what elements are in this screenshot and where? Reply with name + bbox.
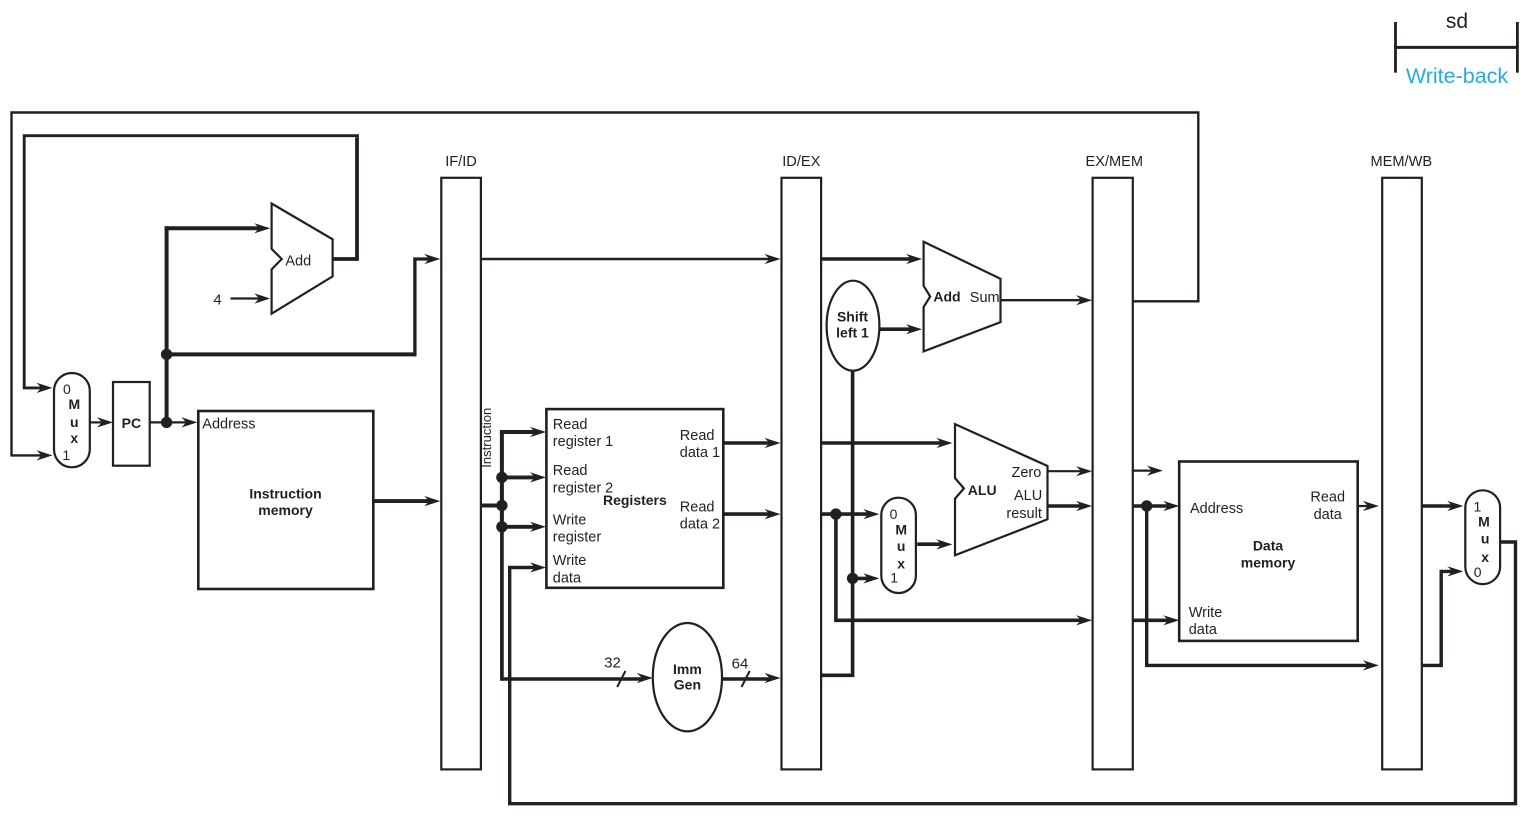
svg-text:Add: Add bbox=[285, 253, 311, 269]
wire: ALU result to EX/MEM bbox=[1048, 504, 1084, 507]
svg-text:Read: Read bbox=[680, 428, 715, 444]
svg-text:Write: Write bbox=[1189, 605, 1223, 621]
svg-text:x: x bbox=[1481, 549, 1489, 565]
svg-text:Read: Read bbox=[553, 417, 588, 433]
wire: instruction to Read register 2 bbox=[502, 475, 537, 479]
wire: store data from EX/MEM to data memory bbox=[1133, 618, 1171, 622]
svg-text:register: register bbox=[553, 529, 602, 545]
adder U1 (PC+4 adder) bbox=[272, 204, 333, 314]
svg-text:data 1: data 1 bbox=[680, 445, 720, 461]
svg-text:data: data bbox=[1314, 507, 1343, 523]
svg-text:64: 64 bbox=[732, 656, 749, 673]
memory DM (data memory) bbox=[1179, 462, 1358, 641]
svg-text:Instruction: Instruction bbox=[249, 485, 321, 501]
slash: 64-bit bus tick bbox=[742, 671, 750, 687]
junction: immediate to mux M2 node bbox=[847, 573, 858, 584]
mux M3 (write-back mux) bbox=[1465, 490, 1500, 584]
wire: Read data 1 from ID/EX to ALU bbox=[821, 441, 943, 445]
wire: Zero stub out of EX/MEM bbox=[1133, 470, 1154, 472]
svg-text:M: M bbox=[1478, 514, 1490, 530]
alu U5 (main ALU) bbox=[955, 424, 1048, 555]
svg-text:sd: sd bbox=[1446, 10, 1468, 33]
svg-text:ALU: ALU bbox=[1014, 488, 1042, 504]
svg-text:Write: Write bbox=[553, 512, 587, 528]
wire: PC value up to Add (thick) bbox=[165, 226, 169, 422]
svg-text:0: 0 bbox=[1474, 564, 1482, 580]
svg-text:4: 4 bbox=[213, 292, 221, 309]
svg-text:0: 0 bbox=[63, 381, 71, 397]
wire: PC value to IF/ID (thick, via corner) bbox=[167, 259, 432, 356]
svg-text:1: 1 bbox=[890, 570, 898, 586]
wire: Shift left 1 to branch Add bbox=[879, 327, 913, 331]
svg-text:left 1: left 1 bbox=[836, 325, 869, 341]
wire: instruction memory to IF/ID bbox=[373, 499, 431, 503]
svg-text:result: result bbox=[1006, 506, 1041, 522]
wire: ALU result from EX/MEM to data memory address bbox=[1133, 504, 1171, 507]
wire: instruction bus from IF/ID bbox=[482, 432, 644, 681]
svg-text:data 2: data 2 bbox=[680, 517, 720, 533]
svg-text:0: 0 bbox=[890, 506, 898, 522]
svg-text:32: 32 bbox=[604, 655, 621, 672]
svg-text:Read: Read bbox=[680, 500, 715, 516]
wire: mux M2 to ALU bbox=[917, 542, 943, 546]
wire: immediate from ID/EX up to Shift left 1 bbox=[821, 370, 853, 675]
svg-text:Address: Address bbox=[1190, 501, 1243, 517]
svg-text:1: 1 bbox=[1474, 499, 1482, 515]
junction: instruction node C bbox=[496, 521, 507, 532]
svg-text:x: x bbox=[897, 556, 905, 572]
junction: Read data 2 store branch node bbox=[830, 508, 841, 519]
svg-text:Sum: Sum bbox=[970, 290, 1000, 306]
svg-text:Read: Read bbox=[553, 463, 588, 479]
wire: mux M1 to PC bbox=[90, 421, 104, 423]
block REGS (registers file) bbox=[546, 409, 723, 588]
svg-text:MEM/WB: MEM/WB bbox=[1370, 154, 1432, 170]
wire: branch target loop (EX/MEM to PC mux input 1) bbox=[12, 113, 1199, 456]
svg-text:Imm: Imm bbox=[673, 661, 702, 677]
wire: PC+4 loop (Add output to PC mux input 0) bbox=[24, 136, 359, 388]
wire: ALU result from MEM/WB up to mux M3 input 0 bbox=[1422, 571, 1455, 665]
svg-text:M: M bbox=[895, 521, 907, 537]
wire: PC+4 from ID/EX to branch Add bbox=[821, 257, 913, 261]
register PC bbox=[113, 382, 150, 466]
svg-text:Address: Address bbox=[202, 417, 255, 433]
svg-text:Gen: Gen bbox=[674, 677, 701, 693]
wire: PC+4 from IF/ID to ID/EX bbox=[482, 258, 772, 260]
svg-text:EX/MEM: EX/MEM bbox=[1086, 154, 1144, 170]
svg-text:Shift: Shift bbox=[837, 309, 868, 325]
svg-text:u: u bbox=[70, 414, 79, 430]
wire: ALU result bypass down to MEM/WB bbox=[1147, 506, 1370, 665]
svg-text:memory: memory bbox=[258, 502, 313, 518]
svg-text:u: u bbox=[1481, 530, 1490, 546]
svg-text:Add: Add bbox=[933, 289, 960, 305]
wire: data memory read data to MEM/WB bbox=[1358, 505, 1370, 507]
wire: Read data 2 to ID/EX bbox=[723, 512, 771, 516]
mux M2 (ALU operand B mux) bbox=[881, 498, 916, 593]
svg-text:memory: memory bbox=[1241, 555, 1296, 571]
pipeline register MEM/WB bbox=[1370, 154, 1432, 769]
svg-text:PC: PC bbox=[122, 415, 141, 431]
wire: instruction to Write register bbox=[502, 525, 537, 529]
wire: Read data 1 to ID/EX bbox=[723, 441, 771, 445]
slash: 32-bit bus tick bbox=[617, 671, 625, 687]
stage bracket (write-back stage marker) bbox=[1394, 22, 1519, 73]
svg-text:IF/ID: IF/ID bbox=[445, 154, 477, 170]
svg-text:data: data bbox=[1189, 622, 1218, 638]
svg-text:ALU: ALU bbox=[968, 482, 997, 498]
pipeline register IF/ID bbox=[441, 154, 481, 769]
pipeline register EX/MEM bbox=[1086, 154, 1144, 769]
svg-text:Write: Write bbox=[553, 553, 587, 569]
wire: branch Add Sum to EX/MEM bbox=[1001, 299, 1084, 301]
svg-text:Write-back: Write-back bbox=[1406, 64, 1509, 88]
svg-text:register 1: register 1 bbox=[553, 434, 613, 450]
svg-text:Registers: Registers bbox=[603, 492, 667, 508]
wire: PC to instruction memory address bbox=[150, 421, 189, 423]
svg-text:1: 1 bbox=[62, 447, 70, 463]
ellipse U2 (Imm Gen) bbox=[653, 623, 722, 731]
wire: constant 4 to Add input bbox=[231, 297, 262, 299]
svg-text:data: data bbox=[553, 570, 582, 586]
junction: PC output node bbox=[161, 417, 172, 428]
wire: Imm Gen to ID/EX bbox=[722, 677, 772, 681]
svg-text:u: u bbox=[897, 538, 906, 554]
wire: read data from MEM/WB to mux M3 input 1 bbox=[1422, 504, 1455, 507]
junction: instruction node A bbox=[496, 472, 507, 483]
junction: PC line to IF/ID branch node bbox=[161, 349, 172, 360]
adder U4 (branch target adder) bbox=[924, 242, 1001, 352]
pipeline register ID/EX bbox=[782, 154, 822, 769]
svg-text:Data: Data bbox=[1253, 538, 1284, 554]
svg-text:Instruction: Instruction bbox=[479, 408, 494, 468]
wire: instruction to Read register 1 bbox=[500, 430, 537, 434]
svg-text:Zero: Zero bbox=[1012, 465, 1042, 481]
junction: ALU result bypass node bbox=[1141, 500, 1152, 511]
junction: instruction node B bbox=[496, 500, 507, 511]
svg-text:x: x bbox=[70, 430, 78, 446]
wire: write-back data loop to register file write data bbox=[510, 542, 1516, 804]
ellipse U3 (Shift left 1) bbox=[827, 281, 880, 371]
wire: immediate to mux M2 input 1 bbox=[853, 577, 871, 581]
wire: ALU Zero to EX/MEM bbox=[1048, 470, 1084, 472]
memory IM (instruction memory) bbox=[198, 411, 373, 589]
mux M1 (PC source mux) bbox=[54, 373, 90, 467]
svg-text:Read: Read bbox=[1310, 489, 1345, 505]
svg-text:ID/EX: ID/EX bbox=[782, 154, 820, 170]
svg-text:M: M bbox=[68, 396, 80, 412]
wire: Read data 2 from ID/EX to mux M2 bbox=[821, 512, 870, 516]
wire: Read data 2 down to EX/MEM (store data) bbox=[836, 514, 1083, 620]
